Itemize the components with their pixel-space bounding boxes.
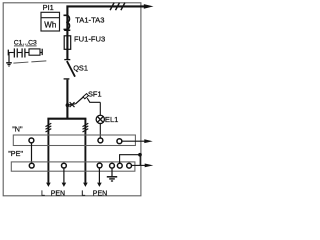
wire: left phase drop: [47, 119, 49, 183]
meter PI1 (Wh box): [41, 12, 60, 31]
wire: outgoing N with arrow: [122, 140, 145, 142]
node: PE terminal 4 (earth): [110, 163, 115, 168]
capacitor C1: [8, 48, 21, 57]
node: PE terminal 2 (PEN out): [62, 163, 67, 168]
switch QS1: [64, 60, 75, 79]
svg-text:EL1: EL1: [105, 115, 119, 124]
lamp EL1: [99, 102, 101, 115]
capacitor C2: [22, 48, 29, 57]
wire: incoming feeder thick line top: [67, 6, 144, 59]
wire: right terminal of capacitor unit: [40, 49, 42, 55]
svg-text:L: L: [41, 190, 45, 197]
node: N terminal 1: [29, 138, 34, 143]
node: 3-phase slash marks on feeder: [110, 3, 125, 11]
wire: dashed link line: [13, 61, 47, 63]
svg-text:Wh: Wh: [44, 20, 56, 29]
fuse FU1-FU3: [64, 36, 71, 50]
transformer TA1-TA3 (current transformer): [64, 15, 70, 29]
wire: N to PE riser: [31, 143, 33, 163]
node: PE terminal 5 (outgoing link): [117, 163, 122, 168]
node: bottom arrow L2: [83, 183, 88, 187]
wire: right phase drop: [84, 119, 86, 183]
node: junction dot: [138, 153, 142, 157]
node: bottom arrow L1: [46, 183, 51, 187]
svg-text:PEN: PEN: [93, 190, 107, 197]
node: slash marks right drop: [83, 123, 89, 132]
svg-text:TA1-TA3: TA1-TA3: [75, 16, 104, 25]
busbar N: [13, 135, 135, 146]
svg-text:FU1-FU3: FU1-FU3: [74, 35, 105, 44]
svg-text:SF1: SF1: [88, 89, 102, 98]
svg-text:PEN: PEN: [51, 190, 65, 197]
wire: T-bar distribution: [47, 118, 86, 120]
node: feeder arrow right: [144, 4, 154, 9]
wire: outgoing PE with arrow: [132, 164, 146, 166]
svg-text:"PE": "PE": [8, 149, 23, 158]
node: N terminal 2 (lamp): [98, 138, 103, 143]
svg-text:"N": "N": [12, 125, 23, 134]
svg-text:L: L: [81, 190, 85, 197]
ground (capacitor earth): [6, 53, 12, 67]
node: N terminal 3 (outgoing): [117, 139, 122, 144]
breaker SF1: [66, 103, 70, 107]
busbar PE: [11, 162, 135, 171]
node: underline dashes: [14, 45, 37, 47]
resistor block of C1...C3 unit: [29, 49, 40, 55]
wire: PE link up and right: [120, 155, 141, 166]
node: bottom arrow PEN2: [97, 183, 102, 187]
wire: bus below QS1: [66, 80, 68, 120]
svg-text:QS1: QS1: [73, 63, 88, 72]
node: PE terminal 6 (outgoing): [127, 163, 132, 168]
node: bottom arrow PEN1: [62, 183, 67, 187]
ground (PE earth): [107, 168, 117, 181]
node: junction tick above fuse: [64, 29, 70, 31]
wire: PEN riser 2 down: [98, 168, 100, 183]
node: slash marks left drop: [46, 123, 52, 132]
svg-text:PI1: PI1: [43, 3, 54, 12]
border frame: [3, 3, 141, 196]
wire: PEN riser 1 down: [63, 168, 65, 183]
node: PE terminal 1: [29, 163, 34, 168]
node: PE terminal 3 (PEN out): [97, 163, 102, 168]
